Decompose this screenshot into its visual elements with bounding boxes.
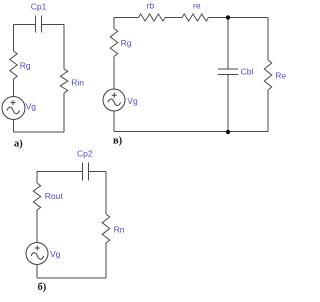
wire: circuit a right upper [63,25,65,70]
source Vg circle (circuit v) [103,89,125,111]
resistor Re [264,60,271,90]
resistor Rout [33,183,40,210]
wire: circuit v left middle [113,57,115,90]
svg-text:rb: rb [147,1,155,11]
svg-text:Vg: Vg [26,101,37,111]
wire: Cbl branch upper [227,18,229,70]
resistor Rin [60,69,67,93]
wire: circuit a top-left segment [14,24,36,26]
source Vg circle (circuit b) [26,243,48,265]
capacitor Cp2 plates [83,163,89,181]
svg-text:Rout: Rout [45,191,64,201]
svg-text:Rg: Rg [20,61,31,71]
svg-text:Vg: Vg [50,249,61,259]
wire: circuit v top right segment [208,17,268,19]
wire: Cbl branch lower [227,75,229,132]
resistor Rg (circuit v) [110,29,117,57]
wire: circuit b left upper [36,172,38,184]
svg-text:Vg: Vg [127,96,138,106]
wire: circuit b right lower [105,243,107,278]
wire: circuit v bottom [114,131,268,133]
wire: circuit v top middle segment [165,17,182,19]
plus sign (circuit b source) [35,246,40,251]
wire: circuit b bottom [37,277,106,279]
wire: circuit b top-right segment [89,171,107,173]
wire: circuit v left lower [113,111,115,132]
wire: circuit b top-left segment [37,171,83,173]
wire: circuit v left upper [113,18,115,29]
wire: circuit b left lower [36,265,38,279]
wire: circuit b left between Rout and source [36,210,38,243]
wire: circuit a left lower [13,120,15,133]
svg-text:Rn: Rn [114,224,125,234]
capacitor C Cp1 plates [36,16,42,33]
svg-text:б): б) [38,282,47,293]
wire: circuit v top-left segment [114,17,139,19]
svg-text:Re: Re [275,71,286,81]
wire: circuit a right lower [63,93,65,132]
wire: circuit v right lower [267,90,269,132]
wire: circuit a bottom [14,131,65,133]
wire: circuit v right upper [267,18,269,61]
svg-text:Cp1: Cp1 [31,2,47,12]
plus sign (circuit a source) [11,100,16,105]
sine wave (circuit v source) [108,99,121,106]
source Vg circle (circuit a) [2,97,25,120]
resistor Rn [102,214,109,243]
junction node top (Cbl/top wire) [226,15,230,19]
svg-text:в): в) [113,136,123,147]
wire: circuit b right upper [105,172,107,215]
svg-text:Cp2: Cp2 [77,148,93,158]
sine wave (circuit b source) [31,253,44,260]
junction node bottom (Cbl/bottom wire) [226,130,230,134]
svg-text:Rin: Rin [71,78,84,88]
resistor re [182,14,208,21]
resistor Rg (circuit a) [10,51,17,79]
svg-text:Rg: Rg [121,38,132,48]
svg-text:а): а) [14,139,23,150]
svg-text:re: re [193,1,201,11]
wire: circuit a left upper [13,25,15,52]
wire: circuit a left between Rg and source [13,79,15,97]
plus sign (circuit v source) [112,93,117,98]
wire: circuit a top-right segment [42,24,65,26]
sine wave (circuit a source) [7,107,20,114]
capacitor Cbl plates [218,69,238,75]
resistor rb [139,14,166,21]
svg-text:Cbl: Cbl [241,66,254,76]
